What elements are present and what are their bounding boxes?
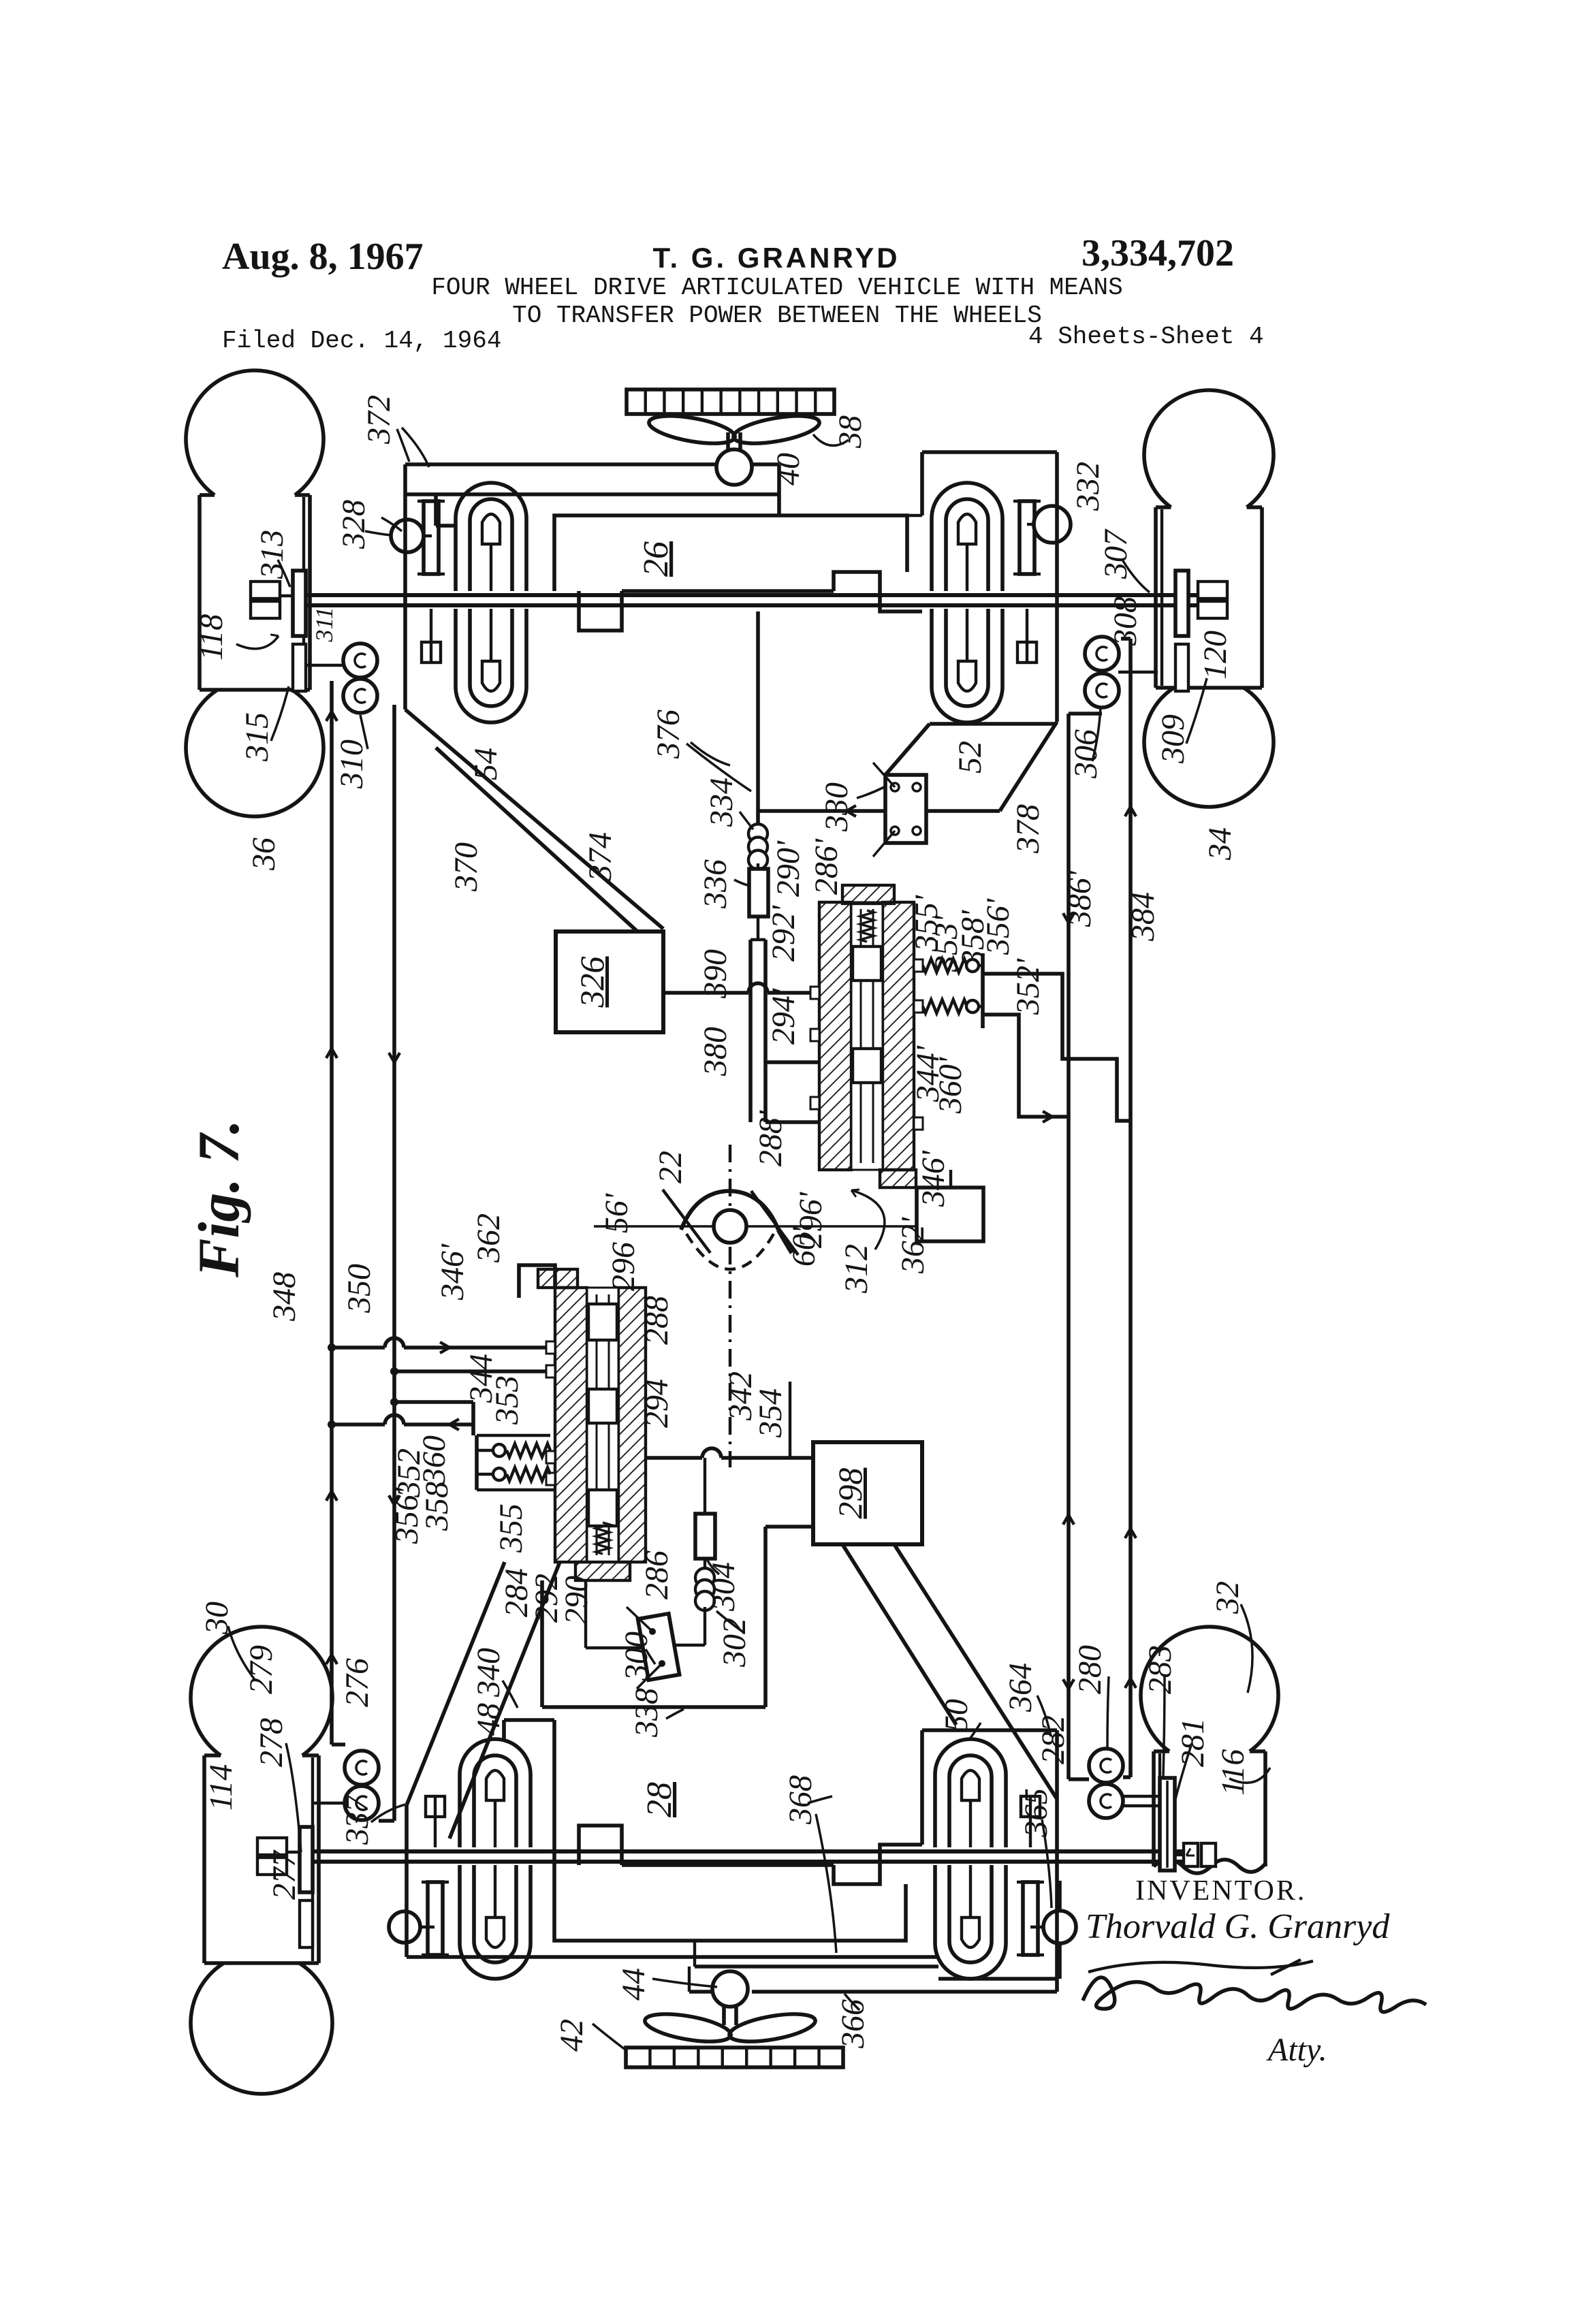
svg-text:350: 350 bbox=[341, 1264, 377, 1314]
svg-text:T. G. GRANRYD: T. G. GRANRYD bbox=[652, 242, 900, 274]
svg-text:311: 311 bbox=[311, 607, 338, 642]
svg-text:INVENTOR.: INVENTOR. bbox=[1135, 1875, 1306, 1907]
svg-text:334: 334 bbox=[704, 778, 740, 827]
svg-text:337: 337 bbox=[339, 1794, 375, 1845]
svg-text:28: 28 bbox=[640, 1782, 679, 1817]
svg-text:FOUR WHEEL DRIVE ARTICULATED V: FOUR WHEEL DRIVE ARTICULATED VEHICLE WIT… bbox=[431, 274, 1122, 302]
svg-text:346': 346' bbox=[915, 1150, 951, 1207]
svg-text:278: 278 bbox=[253, 1718, 289, 1767]
svg-text:Fig. 7.: Fig. 7. bbox=[186, 1119, 251, 1278]
svg-text:386': 386' bbox=[1062, 870, 1098, 927]
svg-text:286': 286' bbox=[808, 838, 844, 895]
svg-text:22: 22 bbox=[652, 1151, 689, 1183]
svg-text:364: 364 bbox=[1002, 1663, 1039, 1713]
svg-text:280: 280 bbox=[1072, 1645, 1108, 1694]
svg-text:372: 372 bbox=[361, 395, 397, 445]
svg-text:54: 54 bbox=[468, 748, 504, 780]
svg-text:36: 36 bbox=[246, 838, 282, 871]
svg-text:328: 328 bbox=[336, 500, 372, 550]
svg-text:384: 384 bbox=[1125, 892, 1161, 942]
svg-text:282: 282 bbox=[1035, 1715, 1071, 1764]
svg-text:360': 360' bbox=[932, 1057, 968, 1114]
svg-text:310: 310 bbox=[334, 739, 370, 789]
svg-text:368: 368 bbox=[783, 1775, 819, 1825]
svg-text:353: 353 bbox=[489, 1375, 525, 1425]
svg-text:378: 378 bbox=[1010, 804, 1046, 854]
svg-text:Atty.: Atty. bbox=[1266, 2032, 1327, 2068]
svg-text:288: 288 bbox=[639, 1296, 675, 1345]
svg-text:114: 114 bbox=[203, 1764, 239, 1811]
svg-text:308: 308 bbox=[1107, 596, 1143, 646]
svg-text:4 Sheets-Sheet 4: 4 Sheets-Sheet 4 bbox=[1028, 323, 1264, 351]
svg-text:56': 56' bbox=[599, 1193, 635, 1233]
svg-text:355: 355 bbox=[493, 1503, 529, 1553]
svg-text:315: 315 bbox=[239, 712, 275, 762]
svg-text:332: 332 bbox=[1070, 462, 1106, 511]
svg-text:34: 34 bbox=[1202, 827, 1238, 861]
svg-text:340: 340 bbox=[471, 1648, 507, 1698]
svg-text:380: 380 bbox=[697, 1027, 733, 1077]
svg-text:277: 277 bbox=[266, 1849, 302, 1900]
svg-text:118: 118 bbox=[193, 614, 230, 660]
svg-text:352': 352' bbox=[1010, 958, 1046, 1015]
svg-text:116: 116 bbox=[1215, 1749, 1251, 1796]
svg-text:304: 304 bbox=[706, 1562, 742, 1612]
svg-text:294': 294' bbox=[765, 988, 802, 1045]
svg-text:374: 374 bbox=[582, 832, 618, 882]
svg-text:TO TRANSFER POWER BETWEEN THE: TO TRANSFER POWER BETWEEN THE WHEELS bbox=[512, 302, 1042, 330]
svg-text:276: 276 bbox=[339, 1658, 375, 1707]
svg-text:362': 362' bbox=[895, 1217, 931, 1274]
svg-text:292': 292' bbox=[765, 905, 802, 961]
svg-text:60': 60' bbox=[786, 1226, 822, 1267]
svg-text:358: 358 bbox=[419, 1482, 455, 1531]
svg-text:370: 370 bbox=[448, 842, 484, 892]
svg-text:366: 366 bbox=[835, 1999, 871, 2049]
svg-text:309: 309 bbox=[1155, 714, 1191, 764]
svg-text:338: 338 bbox=[629, 1688, 665, 1738]
svg-text:390: 390 bbox=[697, 949, 733, 999]
svg-text:376: 376 bbox=[650, 710, 686, 759]
svg-text:346': 346' bbox=[434, 1243, 471, 1301]
svg-text:294: 294 bbox=[639, 1379, 675, 1428]
svg-text:290: 290 bbox=[558, 1576, 595, 1625]
svg-text:288': 288' bbox=[753, 1110, 789, 1166]
svg-text:Filed Dec. 14, 1964: Filed Dec. 14, 1964 bbox=[222, 327, 501, 355]
svg-text:42: 42 bbox=[554, 2019, 590, 2052]
svg-text:3,334,702: 3,334,702 bbox=[1081, 232, 1234, 274]
svg-text:50: 50 bbox=[938, 1699, 975, 1732]
svg-text:Thorvald G. Granryd: Thorvald G. Granryd bbox=[1086, 1907, 1390, 1946]
svg-text:44: 44 bbox=[616, 1968, 652, 2001]
svg-text:290': 290' bbox=[770, 840, 806, 897]
svg-text:307: 307 bbox=[1098, 528, 1134, 579]
svg-text:356': 356' bbox=[980, 898, 1016, 955]
svg-text:360: 360 bbox=[416, 1435, 452, 1485]
svg-text:298: 298 bbox=[831, 1468, 869, 1519]
svg-text:40: 40 bbox=[770, 453, 806, 486]
svg-text:Aug. 8, 1967: Aug. 8, 1967 bbox=[222, 236, 424, 278]
svg-text:362: 362 bbox=[471, 1213, 507, 1263]
svg-text:336: 336 bbox=[697, 859, 733, 909]
svg-text:120: 120 bbox=[1197, 631, 1233, 680]
svg-text:348: 348 bbox=[266, 1272, 302, 1322]
svg-text:52: 52 bbox=[952, 741, 988, 774]
svg-text:365: 365 bbox=[1018, 1788, 1054, 1838]
svg-text:286: 286 bbox=[639, 1550, 675, 1599]
svg-text:48: 48 bbox=[471, 1703, 507, 1736]
svg-text:32: 32 bbox=[1210, 1581, 1246, 1614]
svg-text:330: 330 bbox=[819, 782, 855, 832]
svg-text:296: 296 bbox=[605, 1242, 642, 1291]
svg-text:326: 326 bbox=[573, 957, 611, 1008]
svg-text:283: 283 bbox=[1142, 1645, 1178, 1694]
svg-text:354: 354 bbox=[753, 1388, 789, 1438]
svg-text:312: 312 bbox=[838, 1244, 874, 1294]
svg-text:281: 281 bbox=[1175, 1718, 1211, 1767]
svg-text:26: 26 bbox=[637, 541, 676, 577]
svg-text:38: 38 bbox=[832, 415, 868, 449]
